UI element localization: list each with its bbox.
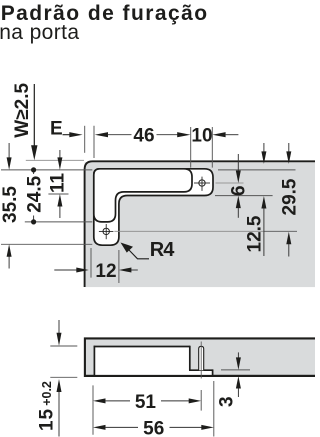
label E with arrow <box>50 119 83 140</box>
label R4 with leader arrow <box>121 239 176 261</box>
hole mark lower (crosshair) <box>99 224 114 239</box>
screw pilot hole <box>199 342 204 379</box>
svg-text:3: 3 <box>217 396 238 407</box>
dimension 6 <box>229 154 250 218</box>
deep pocket (white) <box>94 169 192 222</box>
extension line: hole center right (light) <box>216 182 244 184</box>
extension line: panel left edge top <box>84 126 86 153</box>
extension line: panel top edge left (light) <box>26 159 84 161</box>
extension line: recess right top <box>211 127 213 168</box>
svg-text:6: 6 <box>229 185 250 196</box>
svg-text:51: 51 <box>135 392 157 413</box>
recess cut (white) <box>85 346 316 376</box>
svg-text:35.5: 35.5 <box>0 186 21 223</box>
extension line: slot top, right side <box>218 169 296 171</box>
extension line: 11 bottom <box>48 193 68 195</box>
extension line: recess bottom, left side <box>1 243 92 245</box>
extension line: slot left edge top <box>93 126 95 158</box>
svg-text:15: 15 <box>36 408 57 431</box>
hole mark upper (crosshair) <box>194 177 210 191</box>
svg-text:24.5: 24.5 <box>25 175 46 212</box>
extension line: recess left, bottom <box>92 385 94 434</box>
svg-text:56: 56 <box>143 418 164 437</box>
extension line: screw hole, bottom <box>200 390 202 411</box>
recess outline (3mm step, outer) <box>94 169 213 245</box>
door panel <box>85 161 316 287</box>
dimension 56 <box>93 418 214 437</box>
svg-text:na porta: na porta <box>0 21 79 44</box>
svg-text:10: 10 <box>191 126 212 147</box>
svg-text:+0.2: +0.2 <box>40 381 54 406</box>
extension line: recess bottom, right side <box>215 195 273 197</box>
svg-text:W≥2.5: W≥2.5 <box>12 82 33 137</box>
extension line: slot top, left side <box>1 169 92 171</box>
dimension 29.5 <box>280 143 301 257</box>
dimension W>=2.5 <box>12 82 37 160</box>
svg-text:R4: R4 <box>150 239 175 261</box>
dimension 10 <box>191 126 238 147</box>
extension line: recess right, bottom <box>213 381 215 437</box>
extension line: pocket right top <box>190 127 192 168</box>
dimension 24.5 (dot terminated) <box>25 167 46 224</box>
extension line: pocket bottom, left side <box>25 221 93 223</box>
svg-text:11: 11 <box>47 173 68 194</box>
dimension 12 <box>54 261 138 282</box>
dimension 35.5 <box>0 143 21 269</box>
svg-text:29.5: 29.5 <box>280 178 301 215</box>
dimension 15+0.2 <box>36 320 77 437</box>
svg-text:E: E <box>50 119 63 140</box>
extension line: lower hole center, right side <box>114 230 264 232</box>
dimension 51 <box>93 392 201 413</box>
svg-text:46: 46 <box>133 126 154 147</box>
dimension 3 <box>217 352 251 407</box>
extension line: slot left, bottom <box>90 248 92 278</box>
dimension 11 <box>47 150 68 218</box>
svg-text:12: 12 <box>95 261 116 282</box>
dimension 12.5 <box>244 143 266 256</box>
svg-text:12.5: 12.5 <box>244 215 265 252</box>
dimension 46 <box>95 126 191 147</box>
extension line: slot right, bottom <box>118 250 120 283</box>
door section bar <box>85 338 316 376</box>
